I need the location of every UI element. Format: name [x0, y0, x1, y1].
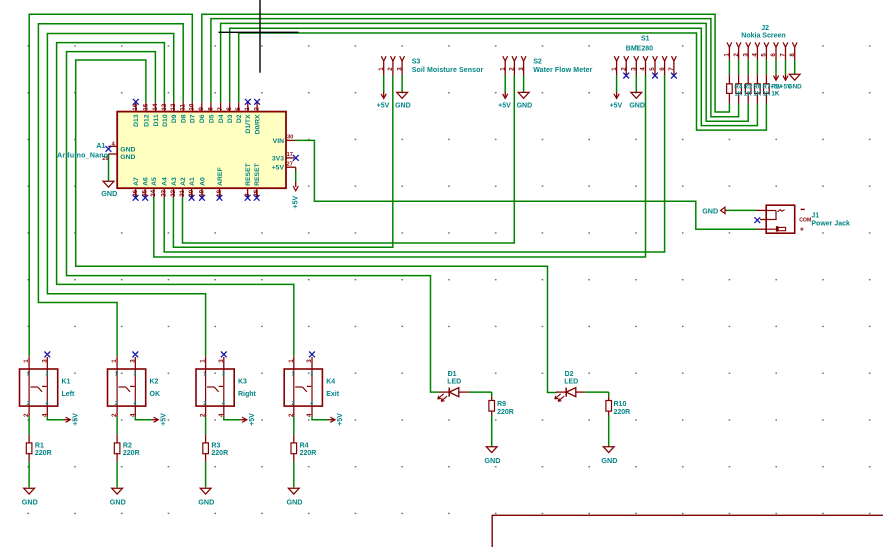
svg-text:D9: D9	[171, 114, 178, 123]
svg-text:R3: R3	[211, 443, 220, 450]
svg-text:1: 1	[111, 359, 118, 363]
svg-text:GND: GND	[110, 497, 126, 506]
svg-text:D4: D4	[218, 114, 225, 123]
svg-text:GND: GND	[120, 154, 135, 161]
svg-text:1K: 1K	[744, 90, 753, 97]
svg-text:6: 6	[770, 53, 777, 57]
svg-text:A1: A1	[96, 143, 105, 150]
svg-text:D10: D10	[162, 114, 169, 127]
svg-text:3: 3	[396, 67, 403, 71]
svg-text:1: 1	[27, 372, 30, 378]
svg-text:R9: R9	[497, 401, 506, 408]
svg-text:A5: A5	[151, 177, 158, 186]
svg-text:1: 1	[292, 372, 295, 378]
svg-text:3: 3	[222, 372, 225, 378]
svg-text:3: 3	[41, 359, 48, 363]
svg-text:Nokia Screen: Nokia Screen	[741, 33, 785, 40]
svg-text:8: 8	[207, 107, 214, 111]
svg-text:17: 17	[287, 152, 293, 158]
svg-text:+5V: +5V	[337, 413, 344, 426]
svg-text:13: 13	[161, 103, 168, 110]
svg-text:D6: D6	[199, 114, 206, 123]
svg-text:220R: 220R	[35, 450, 52, 457]
svg-text:1: 1	[23, 359, 30, 363]
svg-text:220R: 220R	[497, 409, 514, 416]
svg-text:A7: A7	[133, 177, 140, 186]
svg-text:VIN: VIN	[273, 138, 284, 145]
svg-text:GND: GND	[484, 456, 500, 465]
svg-text:4: 4	[218, 413, 225, 417]
svg-text:15: 15	[142, 103, 149, 110]
svg-text:2: 2	[115, 401, 118, 407]
svg-text:1: 1	[115, 372, 118, 378]
svg-text:A6: A6	[143, 177, 150, 186]
svg-text:RESET: RESET	[254, 162, 261, 186]
svg-text:R4: R4	[300, 443, 309, 450]
svg-text:2: 2	[509, 67, 516, 71]
svg-text:3: 3	[310, 372, 313, 378]
svg-text:BME280: BME280	[626, 45, 653, 52]
svg-text:3: 3	[306, 359, 313, 363]
svg-text:30: 30	[287, 135, 293, 141]
svg-text:A3: A3	[171, 177, 178, 186]
svg-text:R1: R1	[35, 443, 44, 450]
svg-text:Left: Left	[62, 391, 76, 398]
svg-text:27: 27	[287, 162, 293, 168]
svg-text:K3: K3	[238, 379, 247, 386]
svg-text:1: 1	[200, 359, 207, 363]
svg-text:2: 2	[620, 67, 627, 71]
svg-text:4: 4	[752, 53, 759, 57]
svg-text:Soil Moisture Sensor: Soil Moisture Sensor	[412, 67, 484, 74]
svg-text:2: 2	[27, 401, 30, 407]
svg-text:R10: R10	[614, 401, 627, 408]
svg-text:220R: 220R	[123, 450, 140, 457]
svg-text:Arduino_Nano: Arduino_Nano	[57, 152, 108, 159]
svg-text:1: 1	[378, 67, 385, 71]
svg-text:12: 12	[170, 103, 177, 110]
svg-text:220R: 220R	[300, 450, 317, 457]
svg-text:1: 1	[724, 53, 731, 57]
svg-text:RESET: RESET	[245, 162, 252, 186]
svg-text:GND: GND	[120, 146, 135, 153]
svg-text:2: 2	[387, 67, 394, 71]
svg-text:Power Jack: Power Jack	[811, 221, 850, 228]
svg-text:COM: COM	[799, 217, 811, 223]
svg-text:8: 8	[789, 53, 796, 57]
svg-text:22: 22	[170, 189, 177, 196]
svg-text:3: 3	[631, 67, 638, 71]
svg-text:A4: A4	[162, 177, 169, 186]
svg-text:4: 4	[46, 401, 49, 407]
svg-text:4: 4	[310, 401, 313, 407]
svg-text:4: 4	[222, 401, 225, 407]
svg-text:14: 14	[152, 103, 159, 110]
svg-text:J1: J1	[811, 212, 819, 219]
svg-text:1K: 1K	[734, 90, 743, 97]
svg-text:7: 7	[780, 53, 787, 57]
svg-text:GND: GND	[198, 497, 214, 506]
svg-text:A2: A2	[180, 177, 187, 186]
svg-text:A0: A0	[199, 177, 206, 186]
svg-text:4: 4	[640, 67, 647, 71]
svg-text:D5: D5	[208, 114, 215, 123]
svg-text:3: 3	[46, 372, 49, 378]
svg-text:1: 1	[611, 67, 618, 71]
svg-text:D1/TX: D1/TX	[245, 114, 252, 134]
svg-text:OK: OK	[150, 391, 161, 398]
svg-text:3: 3	[742, 53, 749, 57]
svg-text:GND: GND	[629, 103, 645, 110]
svg-text:6: 6	[659, 67, 666, 71]
svg-text:5: 5	[235, 107, 242, 111]
svg-text:K4: K4	[326, 379, 335, 386]
svg-text:Water Flow Meter: Water Flow Meter	[533, 67, 592, 74]
svg-text:9: 9	[198, 107, 205, 111]
svg-text:4: 4	[306, 413, 313, 417]
svg-text:7: 7	[668, 67, 675, 71]
svg-text:24: 24	[150, 189, 157, 196]
svg-text:GND: GND	[702, 206, 718, 215]
svg-text:K1: K1	[62, 379, 71, 386]
svg-text:7: 7	[217, 107, 224, 111]
svg-text:A1: A1	[189, 177, 196, 186]
svg-text:1: 1	[244, 107, 251, 111]
svg-text:23: 23	[161, 189, 168, 196]
svg-text:D2: D2	[236, 114, 243, 123]
svg-text:3: 3	[129, 359, 136, 363]
svg-text:1: 1	[203, 372, 206, 378]
svg-text:S3: S3	[412, 59, 421, 66]
svg-text:220R: 220R	[614, 409, 631, 416]
svg-text:1: 1	[499, 67, 506, 71]
svg-text:+5V: +5V	[377, 103, 390, 110]
svg-text:D7: D7	[190, 114, 197, 123]
svg-text:11: 11	[180, 104, 187, 111]
svg-text:+5V: +5V	[610, 103, 623, 110]
svg-text:D0/RX: D0/RX	[255, 114, 262, 134]
svg-text:D11: D11	[153, 114, 160, 126]
svg-text:2: 2	[292, 401, 295, 407]
svg-text:+5V: +5V	[73, 413, 80, 426]
svg-text:GND: GND	[101, 189, 117, 198]
svg-text:220R: 220R	[211, 450, 228, 457]
svg-text:3V3: 3V3	[272, 156, 284, 163]
svg-text:D1: D1	[448, 371, 457, 378]
svg-text:3: 3	[134, 372, 137, 378]
svg-text:6: 6	[226, 107, 233, 111]
svg-text:GND: GND	[517, 103, 533, 110]
svg-text:10: 10	[189, 103, 196, 110]
svg-text:+5V: +5V	[498, 103, 511, 110]
svg-text:D2: D2	[565, 371, 574, 378]
svg-text:2: 2	[111, 413, 118, 417]
svg-text:GND: GND	[395, 103, 411, 110]
svg-text:S1: S1	[641, 36, 650, 43]
svg-text:2: 2	[254, 107, 261, 111]
svg-text:LED: LED	[447, 378, 461, 385]
svg-text:GND: GND	[287, 497, 303, 506]
svg-text:5: 5	[761, 53, 768, 57]
svg-text:4: 4	[129, 413, 136, 417]
svg-text:R2: R2	[123, 443, 132, 450]
svg-text:4: 4	[134, 401, 137, 407]
svg-text:D3: D3	[227, 114, 234, 123]
svg-text:GND: GND	[788, 84, 802, 91]
svg-text:LED: LED	[564, 378, 578, 385]
svg-text:+5V: +5V	[272, 165, 285, 172]
svg-text:Right: Right	[238, 391, 257, 398]
svg-text:1K: 1K	[762, 90, 771, 97]
svg-text:2: 2	[203, 401, 206, 407]
svg-text:1K: 1K	[771, 90, 780, 97]
svg-text:2: 2	[23, 413, 30, 417]
svg-text:2: 2	[288, 413, 295, 417]
svg-text:Exit: Exit	[326, 391, 340, 398]
svg-text:2: 2	[733, 53, 740, 57]
svg-text:21: 21	[179, 189, 186, 196]
svg-text:D8: D8	[181, 114, 188, 123]
svg-text:+5V: +5V	[249, 413, 256, 426]
svg-text:GND: GND	[22, 497, 38, 506]
svg-text:3: 3	[518, 67, 525, 71]
svg-text:AREF: AREF	[217, 167, 224, 186]
svg-text:GND: GND	[601, 456, 617, 465]
svg-text:S2: S2	[533, 59, 542, 66]
svg-text:+5V: +5V	[161, 413, 168, 426]
svg-text:1K: 1K	[753, 90, 762, 97]
svg-text:+: +	[800, 227, 804, 234]
svg-text:4: 4	[41, 413, 48, 417]
svg-text:J2: J2	[761, 25, 769, 32]
svg-text:+5V: +5V	[292, 196, 299, 209]
svg-text:1: 1	[288, 359, 295, 363]
svg-text:2: 2	[200, 413, 207, 417]
svg-text:D12: D12	[143, 114, 150, 127]
svg-text:3: 3	[218, 359, 225, 363]
svg-text:D13: D13	[133, 114, 140, 127]
svg-text:K2: K2	[150, 379, 159, 386]
svg-text:5: 5	[649, 67, 656, 71]
